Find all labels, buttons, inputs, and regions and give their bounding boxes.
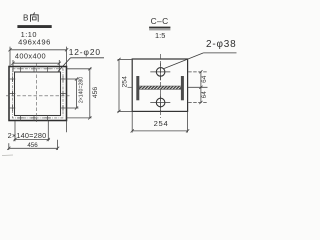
svg-text:64: 64	[201, 75, 208, 83]
inner anchor plate square 400x400	[15, 72, 61, 116]
right dimensions 64 / 64 (vertical)	[188, 70, 208, 104]
left dimension 254 (vertical)	[117, 58, 132, 113]
anchor bolts right column (+ marks)	[60, 76, 66, 111]
horizontal web centerline stub left	[128, 86, 133, 88]
svg-text:1:5: 1:5	[155, 31, 165, 40]
title B(xiang) view name	[23, 12, 38, 22]
anchor bolts bottom row (+ marks)	[18, 115, 51, 121]
svg-text:254: 254	[122, 76, 129, 88]
top hole phi38 circle	[156, 68, 165, 77]
svg-text:456: 456	[27, 142, 38, 149]
svg-text:64: 64	[201, 91, 208, 99]
outer base plate square 496x496	[9, 67, 67, 121]
faint scan mark bottom left	[2, 154, 13, 157]
svg-text:B: B	[23, 14, 29, 23]
dimension 400 line with ticks and extension lines	[11, 60, 61, 72]
web plate (section, hatched)	[139, 86, 181, 89]
anchor bolt centerline rectangle (dash-dot)	[13, 69, 64, 118]
svg-text:456: 456	[92, 87, 99, 99]
title C-C underline (thick+thin)	[149, 27, 170, 29]
svg-text:496x496: 496x496	[18, 37, 51, 46]
left flange plate (section, filled)	[136, 76, 139, 100]
dimension 496 line with ticks and extension lines	[8, 47, 68, 67]
bottom dimension 254	[131, 111, 190, 132]
vertical centerline of plan view (dashed)	[36, 64, 38, 124]
title underline thick bar	[17, 25, 51, 28]
right side dimension 456 (vertical)	[67, 67, 92, 119]
svg-text:2-φ38: 2-φ38	[206, 39, 237, 50]
bottom hole centermark cross	[150, 94, 170, 111]
vertical centerline of section (dashed)	[160, 54, 162, 118]
horizontal centerline of plan view (dashed)	[6, 95, 70, 97]
section C-C outer rectangle	[132, 59, 187, 111]
svg-text:C–C: C–C	[151, 16, 169, 26]
leader line for 12-phi20 label	[58, 58, 104, 72]
bottom dimension 456	[7, 121, 66, 151]
right side dimension 2x140=280 (vertical)	[67, 77, 79, 109]
top hole centermark cross	[150, 63, 170, 80]
svg-text:400x400: 400x400	[15, 52, 46, 61]
right flange plate (section, filled)	[181, 76, 184, 100]
svg-text:2×140=280: 2×140=280	[78, 77, 84, 103]
svg-text:2×140=280: 2×140=280	[8, 131, 47, 140]
bottom dimension 2x140=280	[13, 121, 50, 141]
anchor bolts top row (+ marks)	[18, 66, 51, 72]
svg-text:12-φ20: 12-φ20	[69, 47, 101, 57]
leader line for 2-phi38 label	[164, 53, 237, 69]
svg-text:254: 254	[154, 119, 169, 128]
anchor bolts left column (+ marks)	[10, 76, 16, 111]
bottom hole phi38 circle	[156, 98, 165, 107]
